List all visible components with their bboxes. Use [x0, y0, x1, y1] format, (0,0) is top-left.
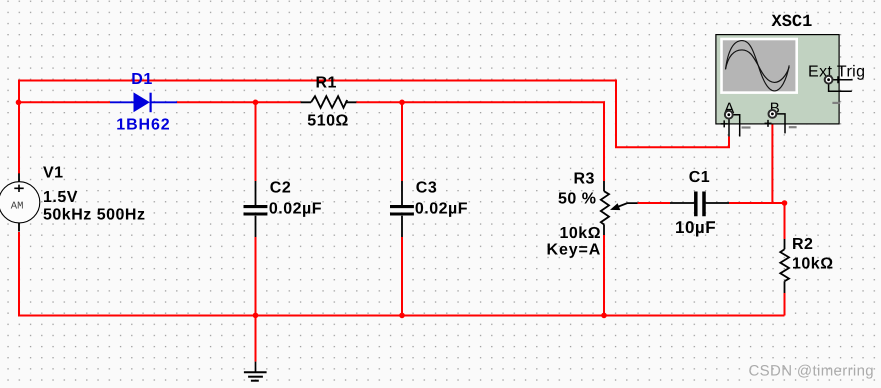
junction ground rail at C3: [399, 313, 405, 319]
svg-text:1BH62: 1BH62: [116, 117, 170, 134]
junction node3: [399, 100, 405, 106]
wire C3 top: [401, 102, 403, 181]
scope waveform big: [726, 41, 790, 91]
value 510ohm: [307, 112, 349, 129]
label R3: [574, 170, 595, 187]
label B: [770, 100, 780, 117]
label R1: [316, 75, 337, 92]
svg-text:10µF: 10µF: [675, 218, 716, 237]
svg-text:R1: R1: [316, 75, 337, 92]
value 50kHz 500Hz: [43, 206, 145, 223]
svg-text:C3: C3: [416, 179, 437, 196]
label C2: [270, 179, 291, 196]
svg-text:50 %: 50 %: [558, 190, 596, 207]
svg-text:AM: AM: [11, 201, 24, 213]
wire R3 bottom: [603, 235, 605, 316]
value C3 0.02uF: [415, 201, 468, 218]
svg-text:C2: C2: [270, 179, 291, 196]
potentiometer R3: [601, 181, 638, 235]
wire node4 to R2: [784, 203, 786, 239]
resistor R1: [301, 96, 357, 108]
scope waveform small: [726, 50, 790, 83]
svg-text:R3: R3: [574, 170, 595, 187]
svg-text:C1: C1: [689, 169, 710, 186]
wire C2 top: [255, 102, 257, 181]
label C1: [689, 169, 710, 186]
value R2 10kohm: [792, 256, 834, 273]
oscilloscope XSC1 body: [716, 35, 839, 124]
value 1.5V: [43, 189, 78, 206]
label A: [724, 100, 734, 117]
capacitor C3: [390, 181, 414, 237]
svg-text:1.5V: 1.5V: [43, 189, 78, 206]
junction ground rail at C2: [253, 313, 259, 319]
value 1BH62: [116, 117, 170, 134]
value R3 percent: [558, 190, 596, 207]
wire R1 to node3: [356, 101, 402, 103]
value R3 key: [547, 242, 602, 259]
junction node2: [253, 100, 259, 106]
capacitor C1: [670, 192, 729, 217]
wire V1 plus to node1: [18, 102, 20, 173]
wire ground drop: [255, 316, 257, 362]
label R2: [792, 236, 813, 253]
watermark: [749, 363, 875, 380]
label C3: [416, 179, 437, 196]
wire R2 bottom to ground rail: [784, 293, 786, 316]
scope terminal Ext Trig: [825, 76, 853, 103]
value C1 10uF: [675, 218, 716, 237]
resistor R2: [780, 239, 789, 293]
svg-text:510Ω: 510Ω: [307, 112, 349, 129]
label XSC1: [772, 13, 813, 32]
wire R3 wiper to C1: [638, 202, 670, 204]
wire C2 bottom: [255, 237, 257, 316]
svg-text:Key=A: Key=A: [547, 242, 602, 259]
wire D1 cathode to node2: [177, 101, 256, 103]
junction ground rail at R3: [601, 313, 607, 319]
scope terminal A: [721, 111, 751, 137]
label Ext Trig: [808, 63, 865, 80]
scope terminal B: [765, 110, 797, 133]
wire V1 minus to ground rail: [19, 232, 785, 316]
svg-text:0.02µF: 0.02µF: [269, 201, 322, 218]
label D1: [131, 71, 152, 88]
svg-text:D1: D1: [131, 71, 152, 88]
svg-text:10kΩ: 10kΩ: [792, 256, 834, 273]
junction node1: [16, 100, 22, 106]
svg-text:XSC1: XSC1: [772, 13, 813, 32]
wire C3 bottom: [401, 237, 403, 316]
capacitor C2: [244, 181, 268, 237]
source V1 AM: [0, 173, 40, 231]
wire scope B down to node4: [771, 117, 773, 203]
svg-text:Ext Trig: Ext Trig: [808, 63, 865, 80]
wire node3 to R3 top: [402, 102, 604, 181]
svg-text:V1: V1: [43, 165, 64, 182]
value C2 0.02uF: [269, 201, 322, 218]
svg-text:10kΩ: 10kΩ: [560, 225, 602, 242]
wire top rail from node1 to scope A: [19, 81, 729, 148]
ground: [244, 362, 267, 381]
wire C1 to node4: [729, 202, 785, 204]
svg-text:50kHz 500Hz: 50kHz 500Hz: [43, 206, 145, 223]
svg-text:CSDN @timerring: CSDN @timerring: [749, 363, 875, 380]
diode D1: [110, 92, 177, 112]
wire node2 to R1: [256, 101, 301, 103]
svg-text:0.02µF: 0.02µF: [415, 201, 468, 218]
label V1: [43, 165, 64, 182]
svg-text:R2: R2: [792, 236, 813, 253]
junction node4: [782, 200, 788, 206]
value R3 resistance: [560, 225, 602, 242]
wire node1 to D1 anode: [18, 101, 110, 103]
